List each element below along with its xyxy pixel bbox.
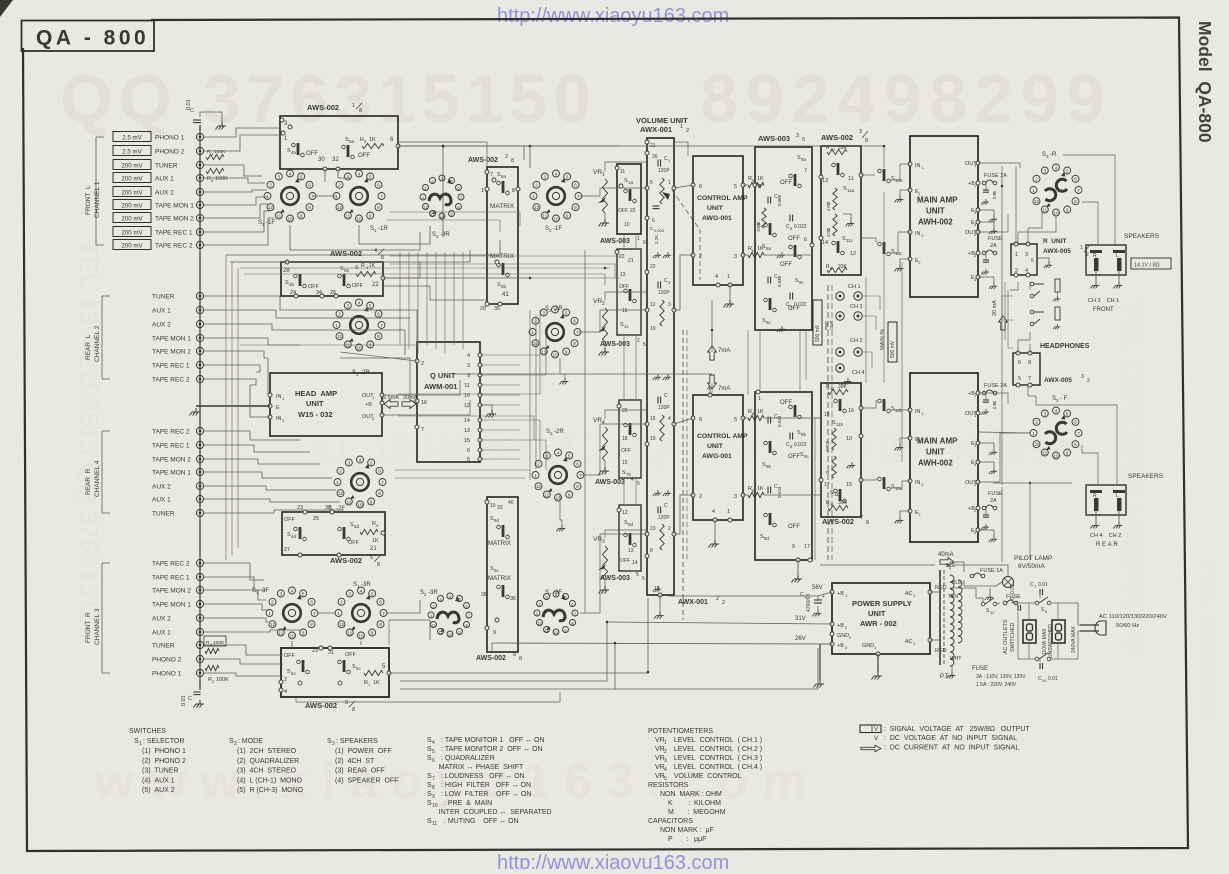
fuse main <box>1003 600 1018 605</box>
svg-text:7: 7 <box>381 480 384 485</box>
input level box 200 mV AUX 2 <box>113 187 151 197</box>
svg-text:8: 8 <box>310 622 313 627</box>
block headphone AWX-005 2/2 <box>1013 353 1040 385</box>
svg-text:5: 5 <box>300 174 303 179</box>
svg-text:4: 4 <box>715 274 718 280</box>
ground AWX-001 bottom <box>654 612 663 619</box>
svg-text:SPEAKERS: SPEAKERS <box>1128 473 1164 480</box>
svg-text:4: 4 <box>289 171 292 176</box>
svg-text:PHONO 1: PHONO 1 <box>152 671 182 678</box>
rotary switch S1-2F <box>334 456 386 508</box>
svg-text:TAPE MON 1: TAPE MON 1 <box>152 602 191 609</box>
svg-text:TAPE REC 1: TAPE REC 1 <box>152 575 190 582</box>
svg-text:7: 7 <box>860 515 863 521</box>
svg-text:W15 - 032: W15 - 032 <box>298 410 333 419</box>
switch S12 <box>981 602 985 606</box>
ground jack 1 <box>1053 296 1060 301</box>
svg-text:IN: IN <box>276 416 282 422</box>
svg-text:20: 20 <box>480 306 486 312</box>
svg-text:IN: IN <box>276 394 282 400</box>
svg-text:TAPE MON 1: TAPE MON 1 <box>152 470 191 477</box>
svg-text:7: 7 <box>1077 188 1080 193</box>
svg-text:4: 4 <box>555 171 558 176</box>
svg-text:18: 18 <box>622 436 628 442</box>
ground main in <box>842 378 851 384</box>
ground top <box>216 122 227 130</box>
svg-text:6: 6 <box>310 600 313 605</box>
switch S8b <box>764 441 777 455</box>
svg-text:2: 2 <box>421 361 424 367</box>
resistor R4 1K <box>356 271 376 276</box>
svg-text:OFF: OFF <box>352 283 364 289</box>
svg-text:OUT: OUT <box>829 320 834 330</box>
ground under S2-1R <box>559 378 568 384</box>
svg-text:(4) L (CH-1) MONO: (4) L (CH-1) MONO <box>237 777 303 784</box>
wire bundle ch3 to bottom selector <box>204 563 264 580</box>
svg-text:AC 110/120/130/220/240V: AC 110/120/130/220/240V <box>1099 614 1167 620</box>
svg-text:5: 5 <box>734 417 737 423</box>
svg-text:TUNER: TUNER <box>152 643 175 650</box>
input connector TAPE MON 1 CH2 <box>196 334 203 341</box>
svg-text:TUNER: TUNER <box>155 163 178 170</box>
switch S7a <box>624 189 637 203</box>
svg-text:47K: 47K <box>825 444 830 452</box>
svg-text:HEADPHONES: HEADPHONES <box>1040 343 1090 350</box>
svg-text:1K: 1K <box>373 680 380 686</box>
svg-text:CH 1: CH 1 <box>848 284 861 290</box>
capacitor C 0.01 top lower <box>983 260 989 262</box>
svg-text:AWS-003: AWS-003 <box>600 341 630 348</box>
svg-text:CH 3: CH 3 <box>850 304 863 310</box>
input connector TAPE REC 2 CH1 <box>196 241 203 248</box>
svg-text:+B: +B <box>837 643 844 649</box>
ground aws-002 3/8 <box>845 220 854 226</box>
power transformer <box>940 570 962 666</box>
wire control amp to filters top <box>743 184 748 186</box>
svg-text:4: 4 <box>668 416 671 422</box>
svg-text:120P: 120P <box>658 405 670 411</box>
svg-text:VR: VR <box>593 169 602 176</box>
svg-text:OFF: OFF <box>621 448 631 454</box>
svg-text:9: 9 <box>493 630 496 636</box>
svg-text:12: 12 <box>1034 199 1040 204</box>
switch S6d matrix <box>497 525 510 539</box>
svg-text:TAPE REC 2: TAPE REC 2 <box>152 377 190 384</box>
svg-text:6: 6 <box>1074 420 1077 425</box>
svg-text:FUSE: FUSE <box>988 236 1003 242</box>
svg-text:1K: 1K <box>757 409 764 415</box>
input connector TAPE MON 1 CH4 <box>196 468 203 475</box>
wire mid right risers x750-860 <box>747 330 749 395</box>
svg-text:0.033: 0.033 <box>777 415 782 427</box>
svg-text:: SELECTOR: : SELECTOR <box>143 738 185 745</box>
svg-text:240VA MAX: 240VA MAX <box>1071 625 1077 653</box>
block AWS-003 lower (S8d S9b) <box>755 392 812 560</box>
svg-text:0.022: 0.022 <box>794 224 807 230</box>
svg-text:TUNER: TUNER <box>152 294 175 301</box>
label 14.1V/8ohm <box>1131 258 1171 269</box>
svg-text:11: 11 <box>464 383 470 389</box>
pilot lamp <box>1003 577 1014 588</box>
svg-text:5: 5 <box>734 184 737 190</box>
svg-text:- F: - F <box>1060 396 1068 402</box>
arrow 7mA up <box>708 346 717 360</box>
svg-text:WHT: WHT <box>950 656 961 662</box>
svg-text:AWS-003: AWS-003 <box>595 479 625 486</box>
switch power lower <box>1035 657 1039 661</box>
ground speaker front 2 <box>1113 282 1122 288</box>
svg-text:7: 7 <box>804 168 807 174</box>
resistor R11 39K <box>828 505 848 510</box>
svg-text:OFF: OFF <box>788 524 800 530</box>
svg-text:16: 16 <box>421 400 427 406</box>
svg-text:6: 6 <box>377 312 380 317</box>
ground aws lower <box>797 560 799 575</box>
svg-text:9c: 9c <box>804 454 810 459</box>
svg-text:1: 1 <box>602 172 605 178</box>
svg-text:MAIN AMP: MAIN AMP <box>917 196 958 205</box>
capacitor C3 120P <box>658 282 661 289</box>
svg-text:12: 12 <box>268 205 274 210</box>
svg-text:11a: 11a <box>847 188 855 193</box>
svg-text:TEN: TEN <box>948 594 958 600</box>
switch S4d <box>294 527 307 541</box>
svg-text:RED: RED <box>935 648 947 654</box>
block AWS-002 8/8 <box>281 648 389 697</box>
svg-text:200 mV: 200 mV <box>121 176 143 183</box>
svg-text:FUSE: FUSE <box>988 491 1003 497</box>
svg-text:35: 35 <box>494 306 500 312</box>
svg-text:TAPE REC 2: TAPE REC 2 <box>155 243 193 250</box>
svg-text:SWITCHES: SWITCHES <box>129 728 166 735</box>
svg-text:3: 3 <box>859 129 862 135</box>
block Q UNIT AWM-001 <box>417 342 480 462</box>
svg-text:3: 3 <box>467 363 470 369</box>
capacitor C4 0.033 lower <box>768 487 771 494</box>
svg-text:C: C <box>664 393 668 399</box>
wire S3F main bottom outputs <box>978 393 1008 404</box>
svg-text:: LOUDNESS OFF ↔ ON: : LOUDNESS OFF ↔ ON <box>439 773 525 780</box>
wire pin5 loop to volume bottom <box>389 598 648 673</box>
svg-text:TAPE MON 2: TAPE MON 2 <box>152 457 191 464</box>
svg-text:41: 41 <box>502 292 509 298</box>
svg-text:-3R: -3R <box>440 232 450 238</box>
svg-text:13: 13 <box>830 386 835 391</box>
resistor R10 33K <box>827 149 847 154</box>
svg-text:6: 6 <box>699 417 702 423</box>
channel 3 group bracket <box>102 562 110 564</box>
svg-text:120P: 120P <box>658 290 670 296</box>
svg-text:4b: 4b <box>289 282 295 287</box>
input connector TAPE REC 2 CH3 <box>196 559 203 566</box>
svg-text:1: 1 <box>1015 252 1018 258</box>
svg-text:5: 5 <box>636 572 639 578</box>
ground volume 1 <box>653 252 661 258</box>
svg-text:10: 10 <box>289 633 295 638</box>
svg-text:6: 6 <box>1074 177 1077 182</box>
wire mid vertical bundle x530 <box>529 310 531 480</box>
ground volume 3 <box>653 490 661 496</box>
svg-text:TAPE REC 1: TAPE REC 1 <box>152 443 190 450</box>
ground main amp E5 bottom <box>989 468 997 474</box>
svg-text:0.01: 0.01 <box>1038 582 1048 588</box>
svg-text:3: 3 <box>1081 374 1084 380</box>
rotary switch S2-3R top <box>420 175 464 219</box>
volume pot ch1 <box>660 178 664 204</box>
svg-text:(2) 4CH ST: (2) 4CH ST <box>335 758 375 765</box>
wire hor mid y470 <box>395 469 530 471</box>
svg-text:4: 4 <box>432 740 435 746</box>
wire vr feeds <box>605 162 647 171</box>
svg-text:200 mV: 200 mV <box>121 190 143 197</box>
svg-text:AWH-002: AWH-002 <box>918 218 953 227</box>
svg-text:4: 4 <box>358 171 361 176</box>
svg-text:11d: 11d <box>834 492 842 497</box>
svg-text:7mA: 7mA <box>718 348 730 354</box>
resistor R13 39K <box>828 389 848 394</box>
switch S5b <box>338 274 351 288</box>
svg-text:TAPE MON 1: TAPE MON 1 <box>155 203 194 210</box>
svg-text:10: 10 <box>1042 678 1047 683</box>
ground cap 4700 <box>812 610 821 616</box>
ground speaker rear 1 <box>1090 522 1099 528</box>
svg-text:2: 2 <box>338 312 341 317</box>
svg-text:FUSE 1A: FUSE 1A <box>980 568 1003 574</box>
svg-text:39K: 39K <box>838 384 848 390</box>
rotary switch S1-1F <box>264 170 316 222</box>
svg-text:5: 5 <box>302 591 305 596</box>
svg-text:NON MARK : OHM: NON MARK : OHM <box>660 791 722 798</box>
svg-text:HEAD AMP: HEAD AMP <box>295 389 337 398</box>
svg-text:19: 19 <box>650 326 656 332</box>
block AWS-003 4/5 <box>619 400 641 478</box>
wire bundle ch4 to selector 2F <box>204 431 300 440</box>
svg-text:2: 2 <box>339 469 342 474</box>
svg-text:40mA: 40mA <box>938 552 954 558</box>
svg-text:2: 2 <box>1035 420 1038 425</box>
svg-text:5: 5 <box>643 342 646 348</box>
svg-text:V: V <box>874 735 879 742</box>
resistor R1 100K <box>206 154 224 159</box>
svg-text:5: 5 <box>637 481 640 487</box>
ground aws-002 7/8 <box>846 462 855 468</box>
svg-text:7: 7 <box>490 172 493 178</box>
svg-text:21: 21 <box>628 258 634 264</box>
wire S3R loop to speakers <box>1063 155 1115 245</box>
svg-text:2: 2 <box>668 526 671 532</box>
input connector AUX 2 CH3 <box>196 614 203 621</box>
svg-text:LEVEL CONTROL ( CH.3 ): LEVEL CONTROL ( CH.3 ) <box>668 755 762 762</box>
wire S3F loop to rear speaker L <box>1028 385 1117 484</box>
svg-text:MATRIX: MATRIX <box>490 253 515 260</box>
svg-text:2: 2 <box>271 600 274 605</box>
wire long run top to matrix <box>398 142 487 167</box>
input level box 200 mV TAPE REC 2 <box>113 240 151 250</box>
svg-text:AUX 1: AUX 1 <box>152 308 171 315</box>
switch S11b <box>834 399 847 413</box>
svg-text:26: 26 <box>652 154 658 160</box>
svg-text:OFF: OFF <box>788 454 800 460</box>
svg-text:-3R: -3R <box>361 582 371 588</box>
dash line pre/main separator mid <box>682 330 684 620</box>
block AWS-002 7/8 <box>821 383 861 517</box>
svg-text:AWS-002: AWS-002 <box>476 655 506 662</box>
svg-text:VR: VR <box>593 417 602 424</box>
svg-text:31: 31 <box>328 650 334 656</box>
input connector TAPE MON 2 CH4 <box>196 455 203 462</box>
svg-text:1: 1 <box>268 611 271 616</box>
rotary switch S2-1R <box>529 306 581 358</box>
svg-text:0.022: 0.022 <box>794 442 807 448</box>
svg-text:2.5 mV: 2.5 mV <box>122 149 142 156</box>
svg-text:7: 7 <box>1028 376 1031 382</box>
svg-text:47K: 47K <box>826 203 831 211</box>
svg-text:AWX-001: AWX-001 <box>640 125 672 134</box>
resistor R1 1K bottom <box>364 670 383 675</box>
svg-text:VR: VR <box>593 536 602 543</box>
wire rail 26V <box>492 643 832 644</box>
switch S7b <box>624 423 637 437</box>
input connector TAPE MON 2 CH2 <box>196 347 203 354</box>
svg-text:2: 2 <box>699 494 702 500</box>
ground bottom input bus <box>194 700 205 708</box>
svg-text:2: 2 <box>1035 177 1038 182</box>
label PRE OUT 500mV <box>813 300 822 345</box>
input level box 200 mV TAPE MON 2 <box>113 213 151 223</box>
input connector TAPE MON 2 CH1 <box>196 214 203 221</box>
input connector TUNER CH2 <box>196 292 203 299</box>
svg-text:: LOW FILTER OFF ↔ ON: : LOW FILTER OFF ↔ ON <box>439 791 531 798</box>
svg-text:10: 10 <box>1053 453 1059 458</box>
svg-text:2.2K: 2.2K <box>654 235 659 244</box>
svg-text:12: 12 <box>1034 442 1040 447</box>
wire bundle below S1-3 rotaries <box>291 641 293 648</box>
svg-text:FUSE 2A: FUSE 2A <box>984 383 1007 389</box>
svg-text:14.1V / 8Ω: 14.1V / 8Ω <box>1134 263 1160 269</box>
svg-text:: QUADRALIZER: : QUADRALIZER <box>439 755 495 762</box>
svg-text:9c: 9c <box>799 280 805 285</box>
svg-text:3: 3 <box>332 741 335 747</box>
svg-text:1: 1 <box>139 741 142 747</box>
resistor R1 100K vert <box>762 208 766 228</box>
svg-text:IN: IN <box>915 163 921 169</box>
svg-text:1: 1 <box>680 124 683 130</box>
rotary switch S1-3F <box>266 587 318 639</box>
svg-text:-1R: -1R <box>553 306 563 312</box>
svg-text:36: 36 <box>510 596 516 602</box>
wire S2 rotaries to volume unit <box>580 188 647 196</box>
svg-text:(1) POWER OFF: (1) POWER OFF <box>335 748 392 755</box>
svg-text:5: 5 <box>643 240 646 246</box>
svg-text:+B: +B <box>837 591 844 597</box>
svg-text:8: 8 <box>511 158 514 164</box>
svg-text:31V: 31V <box>795 616 806 622</box>
svg-text:8: 8 <box>345 700 348 706</box>
svg-text:9d: 9d <box>628 522 634 527</box>
svg-text:5: 5 <box>650 180 653 186</box>
svg-text:8c: 8c <box>766 320 772 325</box>
block CONTROL AMP UNIT AWG-001 top <box>693 156 743 285</box>
svg-text:9: 9 <box>792 544 795 550</box>
resistor R4 100K bottom <box>205 648 219 653</box>
capacitor inside volume 1 <box>653 206 660 209</box>
input connector AUX 1 CH4 <box>196 495 203 502</box>
svg-text:PILOT LAMP: PILOT LAMP <box>1014 555 1052 562</box>
svg-text:9: 9 <box>370 499 373 504</box>
svg-text:(5) R (CH-3) MONO: (5) R (CH-3) MONO <box>237 787 304 794</box>
wire transformer to fuse lamp <box>950 562 964 572</box>
svg-text:11: 11 <box>345 213 350 218</box>
svg-text:4700/63: 4700/63 <box>806 594 812 612</box>
wire volume feeds right column <box>674 142 688 156</box>
svg-text:OFF: OFF <box>780 180 792 186</box>
wire bottom bus returns <box>388 620 390 645</box>
svg-text:-2R: -2R <box>554 429 564 435</box>
svg-text:5: 5 <box>1066 168 1069 173</box>
wire filter block interconnects <box>759 330 761 392</box>
svg-text:10: 10 <box>624 222 630 228</box>
resistor R 47K vert 1 <box>833 188 837 210</box>
svg-text:AWS-003: AWS-003 <box>600 238 630 245</box>
svg-text:3: 3 <box>348 460 351 465</box>
ac plug <box>1095 621 1106 635</box>
wire long y374 run <box>452 373 712 375</box>
svg-text:LEVEL CONTROL ( CH.4 ): LEVEL CONTROL ( CH.4 ) <box>668 764 762 771</box>
svg-text:21: 21 <box>370 546 377 552</box>
svg-text:11: 11 <box>544 492 549 497</box>
svg-text:GND: GND <box>862 643 874 649</box>
svg-text:AUX 2: AUX 2 <box>155 190 174 197</box>
svg-text:8: 8 <box>308 205 311 210</box>
svg-text:5: 5 <box>1066 411 1069 416</box>
svg-text:TAPE REC 1: TAPE REC 1 <box>152 363 190 370</box>
svg-text:: SPEAKERS: : SPEAKERS <box>336 738 378 745</box>
svg-text:5c: 5c <box>356 666 362 671</box>
svg-text:5: 5 <box>370 555 373 561</box>
svg-text:AUX 1: AUX 1 <box>152 497 171 504</box>
svg-text:http://www.xiaoyu163.com: http://www.xiaoyu163.com <box>497 5 729 27</box>
svg-text:UNIT: UNIT <box>707 443 724 450</box>
block R UNIT AWX-005 1/2 <box>1011 244 1037 275</box>
svg-text:6c: 6c <box>494 568 500 573</box>
rotary switch S1-2R <box>333 299 385 351</box>
svg-text:2.5 mV: 2.5 mV <box>122 135 142 142</box>
wire main in connectors <box>863 296 880 310</box>
capacitor C 0.01 top upper <box>983 190 989 192</box>
svg-text:8: 8 <box>576 484 579 489</box>
svg-text:3: 3 <box>796 133 799 139</box>
svg-text:OFF: OFF <box>788 236 800 242</box>
rotary switch S2-1F <box>530 170 582 222</box>
wire bundle mid risers <box>399 252 401 345</box>
svg-text:15: 15 <box>846 482 852 488</box>
svg-text:1: 1 <box>335 323 338 328</box>
svg-text:3: 3 <box>347 174 350 179</box>
svg-text:8: 8 <box>1028 360 1031 366</box>
svg-text:2: 2 <box>284 677 287 683</box>
svg-text:1: 1 <box>1080 245 1083 251</box>
switch S8c <box>764 298 777 312</box>
block MAIN AMP UNIT AWH-002 bottom <box>910 373 978 542</box>
svg-text:22: 22 <box>650 264 656 270</box>
svg-text:AWG-001: AWG-001 <box>702 215 732 222</box>
svg-text:8: 8 <box>379 622 382 627</box>
svg-text:CAPACITORS: CAPACITORS <box>648 818 693 825</box>
svg-text:7: 7 <box>577 194 580 199</box>
svg-text:CH 2: CH 2 <box>850 338 863 344</box>
svg-text:REAR L: REAR L <box>85 334 92 360</box>
block CONTROL AMP UNIT AWG-001 bottom <box>693 395 743 520</box>
